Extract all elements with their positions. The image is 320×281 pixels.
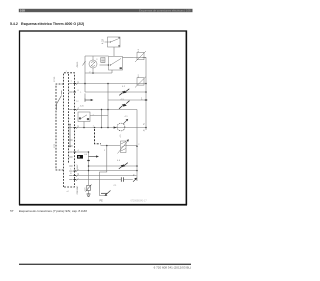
arrow symbol near y99 [85,98,91,101]
jumper link inside strip [69,124,70,147]
micro switch S1 top [105,37,121,47]
svg-text:Esquema eléctrico Therm 4000 O: Esquema eléctrico Therm 4000 O (2/2) [21,22,84,26]
svg-text:4W50: 4W50 [77,61,79,67]
fuse F1 [86,185,92,192]
ground PE arrow [106,191,111,196]
header bar [19,9,193,12]
bus tick label y100 [145,99,147,101]
wire x114 link S1-S2 [113,47,115,56]
fuse tick [87,160,89,162]
wire x112 stub to switch box S2 [111,70,113,73]
limiter B2 [135,77,146,88]
wire y92 electrode E1 line [85,91,146,93]
wire y170.5 strip to bus [75,170,138,172]
capacitor C1 [121,177,123,181]
wire y152 strip to F node [75,151,89,153]
wire y73 motor bottom [85,72,112,74]
wire y166 spark line [89,165,138,167]
flame sensor left arrow [114,126,117,128]
main switch S2 [109,57,123,71]
capacitor arrow tick [133,179,136,182]
wire B1 to bus corner [143,58,147,131]
electrode pair E3 spark [119,163,128,169]
svg-text:230V/AC: 230V/AC [76,185,79,194]
terminal ticks inside strip [69,84,72,180]
footer rule [19,264,191,265]
svg-text:108: 108 [20,9,25,13]
wire vertical x137 right lower bus [136,110,138,182]
wire y145.5 gas valve line [101,145,138,147]
wire y65 connector to S2 [100,64,109,66]
ignition cable dashed [95,129,102,144]
figure frame [20,31,187,205]
relay box [78,112,90,122]
fuse bottom bar [87,194,91,196]
wire y83.5 strip to bus [75,83,147,85]
black connector box [77,155,83,159]
svg-text:6720608341-17: 6720608341-17 [131,200,148,202]
svg-text:PE: PE [100,200,104,203]
wire y56 motor top feed [85,55,109,57]
svg-text:4.19: 4.19 [102,39,105,44]
wire y115.5 relay out [90,115,108,117]
terminal ticks on strip right edge [73,84,75,180]
wire x101.5 link [101,110,103,128]
wire y179.5 capacitor line [75,179,133,181]
wire y175.5 strip line [75,175,137,177]
svg-text:Esquema de conexiones (7 polos: Esquema de conexiones (7 polos) S/N, cap… [19,209,87,213]
wire vertical x88.5 fuse line [88,152,90,185]
flame sensor circle [117,120,127,131]
wire x84 relay bottom pin [83,122,85,128]
switch S3 inside control unit [57,91,62,111]
svg-text:57: 57 [10,209,14,213]
svg-text:Esquemas de conexiones eléctri: Esquemas de conexiones eléctricas | 108 [139,9,191,13]
arrow symbol y156.5 [89,156,97,158]
tiny wire labels [80,92,94,127]
fan motor M1 [89,56,97,73]
control unit dashed outline ST10 [56,73,75,187]
wire y57.5 S2 to limiter B1 [123,57,134,59]
connector ST8 [101,58,105,63]
switch mark left of motor [83,61,86,66]
svg-text:ST10: ST10 [54,76,56,82]
svg-text:5.4.2: 5.4.2 [10,22,18,26]
electrode pair E1 [119,89,129,96]
wire vertical x85 [84,56,86,98]
gas valve MV1 [118,140,129,153]
wire y127.5 flame sensor line [75,127,147,129]
strain slashes at terminals [76,82,78,181]
junction dots [83,64,147,171]
terminal number labels right of strip [70,82,79,176]
limiter B1 [133,51,146,62]
wire y100 electrode E2 upper line [108,99,146,101]
wire vertical x108 [107,84,109,128]
electrode pair E2 [119,101,130,109]
wire x106.8 valve branch down [100,146,107,196]
svg-text:6 720 608 341 (2012/03 BL): 6 720 608 341 (2012/03 BL) [154,265,191,269]
wire y109.5 electrode E2 lower line [75,109,138,111]
